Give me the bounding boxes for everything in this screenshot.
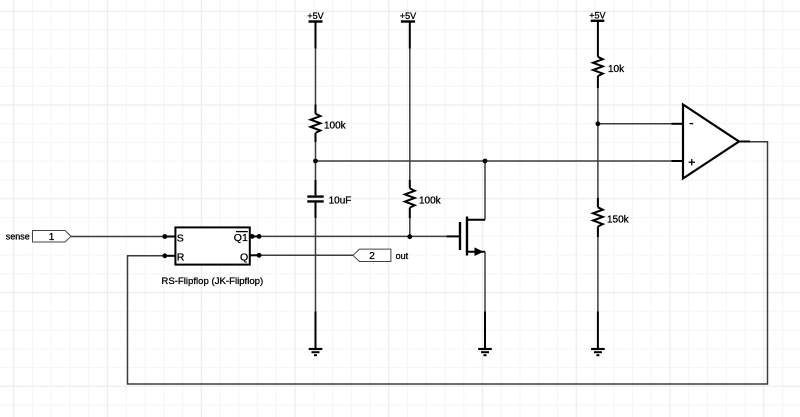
- svg-text:100k: 100k: [324, 120, 347, 131]
- svg-text:150k: 150k: [607, 214, 630, 225]
- svg-text:1: 1: [49, 232, 55, 243]
- svg-text:+5V: +5V: [307, 11, 323, 21]
- svg-text:Q1: Q1: [234, 232, 248, 244]
- svg-text:R: R: [177, 252, 185, 264]
- svg-text:10uF: 10uF: [329, 195, 352, 206]
- svg-text:+5V: +5V: [589, 10, 605, 20]
- svg-text:RS-Flipflop (JK-Flipflop): RS-Flipflop (JK-Flipflop): [161, 276, 263, 287]
- svg-text:S: S: [177, 232, 184, 244]
- svg-text:10k: 10k: [608, 64, 625, 75]
- svg-text:100k: 100k: [419, 195, 442, 206]
- svg-text:+5V: +5V: [400, 11, 416, 21]
- svg-text:out: out: [396, 251, 409, 261]
- svg-text:Q: Q: [240, 251, 248, 263]
- svg-text:sense: sense: [6, 232, 30, 242]
- svg-text:2: 2: [369, 251, 375, 262]
